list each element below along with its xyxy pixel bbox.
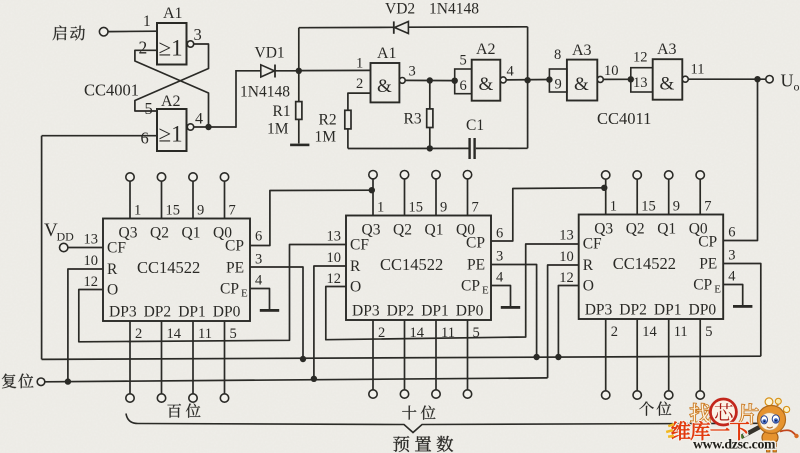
pin 1 label (osc) [356,56,363,72]
svg-text:4: 4 [496,270,504,286]
wire A2 pin6 from left rail [42,135,157,137]
wire VD2 right down to C1 [527,27,529,149]
wire preset enable rail [42,356,761,359]
node output Uo [688,76,765,82]
U3 ones O label [559,270,594,295]
U3 ones Q1 top wire pin 9 [657,171,680,238]
U2 tens CP label [466,226,503,252]
label A1 [163,5,183,22]
svg-text:13: 13 [559,228,574,244]
U1 hundreds CF label [84,232,127,257]
svg-text:3: 3 [409,64,416,80]
svg-text:A1: A1 [163,5,183,22]
label CC4011 [597,109,651,128]
U2 tens Q2 top wire pin 15 [393,171,423,239]
U2 tens ground [501,306,520,309]
output terminal Uo [766,71,800,94]
wire bottom rail R2-C1 [348,147,469,149]
NAND gate A1 (CC4011) [371,63,406,102]
svg-text:10: 10 [84,253,99,269]
wire U3 Q3 to U2 CP pin6 (clock) [491,185,608,241]
U1 hundreds Q0 top wire pin 7 [213,173,236,242]
reset terminal 复位 [2,374,45,389]
svg-text:12: 12 [327,271,342,287]
svg-text:4: 4 [195,111,203,128]
capacitor C1 [468,138,527,159]
U2 tens R label [327,250,362,275]
label VD2 [385,1,415,18]
U2 tens DP1 label [421,303,449,320]
svg-text:DP2: DP2 [387,303,415,320]
svg-text:3: 3 [496,249,503,265]
svg-text:1N4148: 1N4148 [429,1,479,18]
wire A3a out to A3b in [603,78,631,80]
U3 ones CP label [698,225,735,251]
U1 hundreds DP1 bottom wire pin 11 [189,321,212,402]
U1 hundreds DP0 bottom wire pin 5 [220,321,236,402]
brace preset group [126,414,779,433]
IC U2 tens CC14522 body [346,216,491,321]
svg-text:DP0: DP0 [213,304,241,321]
svg-text:10: 10 [604,63,619,79]
U2 tens DP0 label [456,303,484,320]
svg-text:9: 9 [555,77,562,93]
svg-text:O: O [583,278,594,295]
U2 tens CPE pin4 to ground [491,286,511,307]
U1 hundreds PE label [226,252,262,277]
svg-text:Q2: Q2 [393,222,412,239]
svg-text:9: 9 [673,199,680,215]
U3 ones DP3 label [585,302,613,319]
svg-text:5: 5 [705,324,712,340]
svg-text:5: 5 [460,53,467,69]
U1 hundreds DP1 label [178,304,206,321]
U1 hundreds DP2 label [144,304,172,321]
svg-text:A3: A3 [572,42,592,59]
U1 hundreds Q1 top wire pin 9 [182,173,205,242]
svg-text:8: 8 [554,47,561,63]
svg-text:CC4011: CC4011 [597,109,651,128]
U1 hundreds CPE pin4 to ground [250,289,270,310]
svg-text:A3: A3 [657,41,677,58]
svg-text:3: 3 [194,25,202,44]
U3 ones DP3 bottom wire pin 2 [602,319,618,399]
pin 13 label [633,75,648,91]
U1 hundreds R label [84,253,119,278]
node U1 PE on preset rail [300,356,306,362]
svg-text:DP1: DP1 [421,303,449,320]
svg-text:&: & [479,74,494,95]
pin 10 label [604,63,619,79]
svg-text:2: 2 [135,326,142,342]
label A3 (second) [657,41,677,58]
svg-text:Q1: Q1 [657,221,676,238]
label 1N4148 [240,84,290,101]
svg-text:1: 1 [143,13,151,30]
svg-text:1: 1 [610,199,617,215]
node A2 input [452,78,458,84]
node U3 O on preset rail [555,354,561,360]
svg-text:≥1: ≥1 [159,122,183,147]
svg-text:DP0: DP0 [689,302,717,319]
pin 1 label [143,13,151,30]
ground [290,144,309,147]
wire U3 O pin12 to preset rail [558,286,578,358]
U3 ones Q3 top wire pin 1 [594,171,617,238]
svg-text:R2: R2 [319,112,337,129]
node A1 out / R3 [405,77,455,83]
svg-text:VD2: VD2 [385,1,415,18]
svg-text:R1: R1 [273,103,291,120]
svg-text:12: 12 [559,270,574,286]
U3 ones CPE label [693,269,736,296]
svg-text:DP3: DP3 [585,302,613,319]
svg-text:Q1: Q1 [425,222,444,239]
svg-text:1: 1 [134,203,141,219]
U3 ones Q2 top wire pin 15 [626,171,656,238]
svg-text:13: 13 [84,232,99,248]
svg-text:C1: C1 [466,117,484,134]
svg-text:CP: CP [461,278,480,295]
svg-text:2: 2 [611,324,618,340]
svg-text:6: 6 [141,129,149,148]
svg-text:&: & [660,74,675,95]
svg-text:6: 6 [728,225,735,241]
svg-text:E: E [241,288,248,300]
svg-text:10: 10 [559,249,574,265]
svg-text:DD: DD [57,230,75,244]
svg-text:VD1: VD1 [255,45,285,62]
pin 12 label [633,50,648,66]
svg-text:www.dzsc.com: www.dzsc.com [693,437,776,452]
svg-text:Q2: Q2 [626,221,645,238]
label 个位 (ones preset) [639,402,671,416]
svg-text:≥1: ≥1 [159,36,183,61]
NAND gate A3 (second) [631,59,689,99]
label VD1 [255,45,285,62]
U3 ones DP2 bottom wire pin 14 [633,319,657,399]
svg-text:11: 11 [674,324,688,340]
wire junction up to VD2 rail [298,28,300,71]
svg-text:A2: A2 [161,93,181,110]
svg-text:CP: CP [693,277,712,294]
wire U1 R pin10 to reset rail [68,269,103,382]
svg-text:CC14522: CC14522 [613,254,676,273]
label 百位 (hundreds preset) [168,404,201,418]
label A1 (osc) [377,45,397,62]
svg-text:10: 10 [327,250,342,266]
U2 tens Q0 top wire pin 7 [456,171,479,239]
svg-text:12: 12 [84,274,99,290]
U2 tens DP1 bottom wire pin 11 [432,320,455,398]
label R1 [273,103,291,120]
svg-text:2: 2 [356,76,363,92]
U3 ones PE label [699,248,735,273]
svg-text:E: E [482,285,489,297]
svg-text:4: 4 [255,273,263,289]
pin 4 label [195,111,203,128]
svg-text:1M: 1M [267,121,289,138]
svg-text:CP: CP [220,281,239,298]
NAND gate A2 (CC4011) [455,60,507,101]
svg-text:&: & [574,74,589,95]
U2 tens PE label [467,249,503,274]
wire U1 PE pin3 to preset rail [250,267,303,359]
U2 tens Q1 top wire pin 9 [425,171,448,239]
U3 ones ground [733,305,752,308]
svg-text:1: 1 [377,200,384,216]
U2 tens DP2 bottom wire pin 14 [400,320,424,398]
node A3 second input [628,76,634,82]
VDD supply terminal [44,220,74,252]
U3 ones DP2 label [619,302,647,319]
pin 6 label [141,129,149,148]
svg-text:CP: CP [466,235,485,252]
U2 tens DP3 label [352,303,380,320]
svg-text:CC14522: CC14522 [380,255,443,274]
U3 ones DP1 bottom wire pin 11 [665,319,688,399]
svg-text:13: 13 [633,75,648,91]
svg-text:CF: CF [107,240,126,257]
svg-text:7: 7 [704,199,711,215]
pin 5 label (osc) [460,53,467,69]
label 1N4148 (VD2) [429,1,479,18]
svg-text:1: 1 [356,56,363,72]
NOR gate A1 (CC4001) [157,23,194,65]
svg-text:A2: A2 [476,41,496,58]
svg-text:6: 6 [496,226,503,242]
U3 ones CPE pin4 to ground [723,285,743,306]
U2 tens CF label [327,229,370,254]
node R3 bottom rail [427,145,433,151]
wire A1 output cross to A2 pin5 [135,44,209,111]
label 十位 (tens preset) [402,406,435,420]
svg-text:CF: CF [583,236,602,253]
pin 6 label (osc) [460,78,467,94]
wire U2 Q3 to U1 CP pin6 (clock) [250,187,375,246]
node U1 R on reset rail [65,378,71,384]
svg-text:O: O [107,282,118,299]
node A2 out [506,77,549,83]
node VD1 cathode junction [296,68,371,74]
svg-text:11: 11 [691,62,705,78]
NAND gate A3 (first) [549,60,603,101]
svg-text:&: & [377,76,392,97]
svg-text:7: 7 [472,200,479,216]
wire A1 pin2 to R2 [348,93,371,110]
svg-text:CP: CP [698,234,717,251]
U3 ones CF label [559,228,602,253]
svg-text:5: 5 [473,325,480,341]
pin 2 label (osc) [356,76,363,92]
label R2 [319,112,337,129]
svg-text:DP1: DP1 [178,304,206,321]
resistor R1 1M [296,71,302,144]
svg-text:DP2: DP2 [619,302,647,319]
U3 ones Q0 top wire pin 7 [689,171,712,238]
svg-text:DP3: DP3 [352,303,380,320]
diode VD2 1N4148 [394,21,528,33]
pin 3 label (osc) [409,64,416,80]
U2 tens DP0 bottom wire pin 5 [463,320,479,398]
svg-text:9: 9 [440,200,447,216]
label A3 (first) [572,42,592,59]
U3 ones R label [559,249,594,274]
svg-text:2: 2 [139,38,148,58]
pin 3 label [194,25,202,44]
IC U1 hundreds CC14522 body [103,219,250,322]
svg-text:6: 6 [460,78,467,94]
svg-text:6: 6 [255,229,262,245]
IC U3 ones CC14522 body [579,215,724,320]
svg-text:15: 15 [641,199,656,215]
wire U2 R pin10 to reset rail [314,266,346,379]
svg-text:PE: PE [699,256,717,273]
svg-text:DP2: DP2 [144,304,172,321]
svg-text:7: 7 [229,203,236,219]
U1 hundreds DP2 bottom wire pin 14 [157,321,181,402]
svg-text:1M: 1M [315,129,337,146]
wire reset rail [45,378,548,382]
svg-text:5: 5 [145,99,153,118]
svg-text:U: U [781,71,794,91]
svg-text:o: o [794,80,800,94]
U1 hundreds DP0 label [213,304,241,321]
svg-text:E: E [714,284,721,296]
svg-text:Q2: Q2 [150,225,169,242]
U3 ones DP0 bottom wire pin 5 [696,319,712,399]
wire U2 O pin12 to U3 CF pin13 (carry) [326,244,579,340]
U1 hundreds DP3 bottom wire pin 2 [126,321,142,402]
wire U1 O pin12 to U2 CF pin13 (carry) [79,245,346,342]
diode VD1 1N4148 [236,65,299,78]
U1 hundreds DP3 label [109,304,137,321]
pin 9 label [555,77,562,93]
U1 hundreds O label [84,274,119,299]
svg-text:12: 12 [633,50,648,66]
pin 5 label [145,99,153,118]
U1 hundreds ground [260,309,279,312]
label A2 [161,93,181,110]
pin 11 label [691,62,705,78]
node U2 PE on preset rail [533,354,539,360]
svg-text:Q1: Q1 [182,225,201,242]
label CC4001 [84,81,139,100]
label A2 (osc) [476,41,496,58]
svg-text:CF: CF [350,237,369,254]
watermark logo dzsc.com [666,398,799,452]
label 预置数 (preset number) [393,436,453,452]
U2 tens Q3 top wire pin 1 [362,171,385,239]
pin 2 label [139,38,148,58]
start input terminal 启动 [53,25,108,40]
svg-text:R3: R3 [404,111,422,128]
wire A2 output up to VD1 [235,70,237,128]
wire preset rail right end to U3 PE pin3 [723,264,761,357]
node A3 first input [546,76,552,82]
U1 hundreds Q2 top wire pin 15 [150,173,180,242]
svg-text:14: 14 [642,324,657,340]
U2 tens DP2 label [387,303,415,320]
svg-text:O: O [350,279,361,296]
svg-text:R: R [350,258,361,275]
U2 tens O label [327,271,362,296]
wire VDD to U1 CF pin13 [68,247,103,249]
wire latch A2 pin6 left rail [41,136,43,360]
svg-text:5: 5 [230,326,237,342]
wire VD2 rail [299,26,394,28]
svg-text:15: 15 [166,203,181,219]
svg-text:CC14522: CC14522 [137,258,200,277]
wire A2 output cross to A1 pin2 [135,50,209,127]
svg-text:13: 13 [327,229,342,245]
svg-text:4: 4 [728,269,736,285]
svg-text:CC4001: CC4001 [84,81,139,100]
pin 8 label [554,47,561,63]
svg-text:3: 3 [255,252,262,268]
svg-text:PE: PE [226,260,244,277]
U1 hundreds Q3 top wire pin 1 [119,173,142,242]
node A2 output [193,124,236,130]
svg-text:DP3: DP3 [109,304,137,321]
node U2 R on reset rail [311,376,317,382]
svg-text:11: 11 [198,326,212,342]
wire U2 PE pin3 to preset rail [491,265,537,358]
resistor R2 1M [345,110,351,148]
svg-text:3: 3 [728,248,735,264]
U2 tens DP3 bottom wire pin 2 [369,320,385,398]
resistor R3 [427,81,433,149]
pin 4 label (osc) [507,64,515,80]
U3 ones DP1 label [654,302,682,319]
wire Uo down to IC3 CP [723,79,757,240]
U1 hundreds CPE label [220,273,263,300]
svg-text:DP1: DP1 [654,302,682,319]
svg-text:CP: CP [225,238,244,255]
svg-text:9: 9 [197,203,204,219]
svg-text:A1: A1 [377,45,397,62]
wire start to A1 pin1 [108,30,157,32]
svg-text:1N4148: 1N4148 [240,84,290,101]
label 1M (R2) [315,129,337,146]
wire U3 R pin10 to reset rail end [548,265,579,378]
svg-text:R: R [107,261,118,278]
U3 ones DP0 label [689,302,717,319]
NOR gate A2 (CC4001) [157,109,194,151]
svg-text:R: R [583,257,594,274]
svg-text:DP0: DP0 [456,303,484,320]
label R3 [404,111,422,128]
label 1M [267,121,289,138]
U2 tens CPE label [461,270,504,297]
U1 hundreds CP label [225,229,262,255]
label C1 [466,117,484,134]
svg-text:14: 14 [167,326,182,342]
svg-text:4: 4 [507,64,515,80]
svg-text:PE: PE [467,257,485,274]
svg-text:15: 15 [409,200,424,216]
